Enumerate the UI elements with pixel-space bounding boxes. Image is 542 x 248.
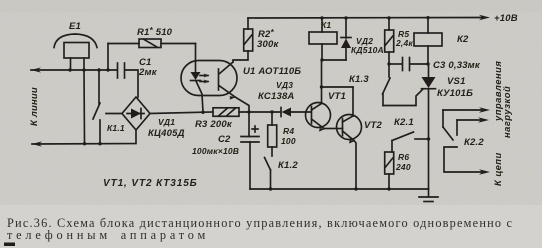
resistor R1 <box>108 39 196 70</box>
svg-text:2мк: 2мк <box>138 67 158 78</box>
label C1 2мк <box>138 57 158 78</box>
thyristor VS1 <box>422 64 436 139</box>
wire: bridge left stub <box>106 113 122 115</box>
relay coil K1 <box>309 18 337 60</box>
label R4 100 <box>281 126 296 146</box>
label K1.1 <box>107 123 125 133</box>
label R3 200к <box>195 119 233 130</box>
transistor VT1 <box>306 103 337 132</box>
ground symbol <box>419 189 438 202</box>
resistor R6 <box>385 152 394 189</box>
svg-text:К2.2: К2.2 <box>464 137 484 148</box>
bridge rectifier VD1 <box>122 97 150 130</box>
net label К линии <box>29 87 40 126</box>
svg-text:100мк×10В: 100мк×10В <box>192 146 239 156</box>
svg-text:2,4к: 2,4к <box>395 38 413 48</box>
contact K1.1 <box>93 70 100 144</box>
capacitor C3 <box>389 58 430 71</box>
node dots on upper lead <box>68 68 109 71</box>
label VD2 КД510А <box>351 36 384 55</box>
figure caption <box>7 216 513 242</box>
note VT1, VT2 КТ315Б <box>103 178 198 189</box>
bell E1 <box>54 34 97 70</box>
net label К цепи управления нагрузкой <box>492 61 512 186</box>
svg-text:КД510А: КД510А <box>351 45 384 55</box>
svg-text:КС138А: КС138А <box>258 91 295 102</box>
svg-text:240: 240 <box>395 162 411 172</box>
label R2* 300к <box>257 28 279 50</box>
label R5 2,4к <box>395 29 413 48</box>
wire: thyristor gate <box>383 90 423 106</box>
contact K2.2 with output arrows <box>443 107 490 175</box>
contact K2.1 <box>392 132 430 152</box>
resistor R3 <box>213 108 239 117</box>
svg-text:VТ1, VТ2 КТ315Б: VТ1, VТ2 КТ315Б <box>103 178 198 189</box>
svg-text:VS1: VS1 <box>447 76 466 87</box>
label VD3 КС138А <box>258 80 295 102</box>
label R6 240 <box>395 152 411 172</box>
label K1 <box>321 20 331 30</box>
svg-text:+10В: +10В <box>494 13 518 24</box>
svg-text:К линии: К линии <box>29 87 40 126</box>
wire: ground rail <box>250 187 429 190</box>
svg-text:R1* 510: R1* 510 <box>137 26 173 38</box>
resistor R4 <box>268 112 277 147</box>
capacitor C1 <box>118 63 125 78</box>
svg-text:VД3: VД3 <box>276 80 293 90</box>
label VD1 КЦ405Д <box>148 117 185 139</box>
svg-text:К цепи: К цепи <box>492 152 503 186</box>
svg-text:К1.3: К1.3 <box>349 74 369 85</box>
svg-text:Е1: Е1 <box>69 21 81 32</box>
optocoupler U1 <box>181 61 249 113</box>
relay coil K2 <box>414 18 442 64</box>
svg-text:VТ2: VТ2 <box>364 120 383 131</box>
wire: vertical link x84 <box>83 70 86 144</box>
label E1 <box>69 21 81 32</box>
net label +10В <box>494 13 518 24</box>
resistor R5 <box>385 18 394 66</box>
label VS1 КУ101Б <box>437 76 473 99</box>
svg-text:VТ1: VТ1 <box>328 91 346 102</box>
capacitor C2 <box>241 112 259 189</box>
svg-text:телефонным аппаратом: телефонным аппаратом <box>7 228 209 242</box>
svg-text:С3 0,33мк: С3 0,33мк <box>433 60 481 71</box>
svg-text:С2: С2 <box>218 134 231 145</box>
svg-text:300к: 300к <box>257 39 279 50</box>
label K1.2 <box>278 160 298 171</box>
svg-text:VД1: VД1 <box>158 117 175 127</box>
svg-text:100: 100 <box>281 136 296 146</box>
label K2 <box>457 34 469 45</box>
svg-text:КУ101Б: КУ101Б <box>437 88 473 99</box>
resistor R2 <box>233 18 253 62</box>
svg-text:К2.1: К2.1 <box>394 117 414 128</box>
wire: base node bus y112 <box>150 110 311 114</box>
diode VD3 <box>281 108 291 117</box>
contact K1.2 <box>265 147 273 189</box>
svg-text:КЦ405Д: КЦ405Д <box>148 128 185 139</box>
label U1 АОТ110Б <box>243 66 301 77</box>
diode VD2 <box>320 18 351 62</box>
svg-text:R4: R4 <box>283 126 294 136</box>
wire: +10V top rail <box>248 15 490 21</box>
svg-text:R3 200к: R3 200к <box>195 119 233 130</box>
label VT2 <box>364 120 383 131</box>
corner mark <box>4 243 15 247</box>
wire: VS1 cathode to ground rail <box>428 139 430 189</box>
label VT1 <box>328 91 346 102</box>
contact K1.3 <box>383 64 391 106</box>
svg-text:К1: К1 <box>321 20 331 30</box>
svg-text:К2: К2 <box>457 34 469 45</box>
wire: K1 node to VT1 collector <box>320 60 353 116</box>
svg-text:нагрузкой: нагрузкой <box>501 86 512 138</box>
svg-text:R6: R6 <box>398 152 409 162</box>
label C3 0,33мк <box>433 60 481 71</box>
label C2 100мк <box>192 134 239 156</box>
label K2.2 <box>464 137 484 148</box>
wire: lower phone-line lead <box>32 130 136 147</box>
svg-text:U1 АОТ110Б: U1 АОТ110Б <box>243 66 301 77</box>
label K1.3 <box>349 74 369 85</box>
label R1* 510 <box>137 26 173 38</box>
label K2.1 <box>394 117 414 128</box>
svg-text:К1.2: К1.2 <box>278 160 298 171</box>
transistor VT2 <box>337 115 362 190</box>
svg-text:К1.1: К1.1 <box>107 123 125 133</box>
wire: upper phone-line lead <box>31 67 138 97</box>
